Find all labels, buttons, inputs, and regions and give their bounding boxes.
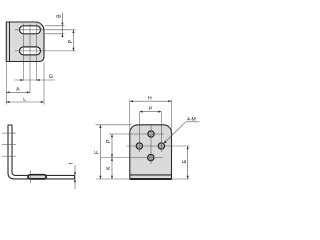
lower slot horizontal centerline [15,50,76,52]
dimension P top left arrow [139,111,142,113]
dimension L left arrow [6,101,9,103]
dimension F line [99,125,101,179]
side view tick hole row 3 [2,155,16,157]
dimension H right arrow [168,100,171,102]
dimension P right line [73,30,75,51]
dimension G left outside arrow [20,79,23,81]
H left extension [129,100,131,132]
svg-text:P: P [106,139,112,143]
slot center axis vertical (A extension) [29,24,31,93]
leader diagonal to right hole [164,122,186,143]
dimension P left line [111,134,113,158]
centerline vertical right hole / P ext [160,112,162,152]
extension line slot top for B [45,25,65,27]
hole bottom [148,155,154,161]
dimension P arrow up [72,30,74,33]
face view plate (top-left, slotted leg) [6,22,44,62]
hole right [158,143,164,149]
side view tick hole row 2 [2,144,16,146]
dimension K top arrow [111,158,113,161]
dimension t line [74,165,76,189]
svg-text:A: A [16,87,20,93]
dimension H left arrow [130,100,133,102]
dimension P left bottom arrow [111,154,113,157]
dimension L line [6,101,44,103]
svg-text:E: E [182,159,188,163]
dimension E bottom arrow [187,176,189,179]
dimension E line [187,146,189,179]
svg-text:P: P [68,39,74,43]
centerline bottom hole row horizontal [101,157,163,159]
dimension K bottom arrow [111,176,113,179]
thick bottom bend edge [130,178,172,180]
centerline top hole row horizontal [109,133,164,135]
hole-leg view plate (bottom-right) [130,125,172,179]
dimension K line [111,158,113,179]
dimension B arrow up [61,34,63,37]
lower slot [20,47,41,55]
dimension B line [61,13,63,38]
centerline vertical left hole / P ext [138,112,140,152]
svg-text:K: K [106,166,112,170]
leader shoulder under 4-M [186,121,200,123]
dimension F bottom arrow [99,176,101,179]
dimension G right outside arrow [37,79,40,81]
E bottom extension right [172,178,190,180]
dimension P top right arrow [158,111,161,113]
svg-text:L: L [23,97,26,103]
dimension t arrow down [74,172,76,175]
dimension G line [14,79,55,81]
dimension E top arrow [187,146,189,149]
bend strip line of hole-leg view [130,174,172,176]
slot hole centerline right vertical [36,24,38,81]
H right extension [171,100,173,132]
upper slot [20,26,41,34]
dimension P left top arrow [111,134,113,137]
leader arrowhead [164,140,167,143]
slot hole centerline left vertical [23,24,25,81]
bend strip line of face view [9,22,11,62]
extension line slot bottom for B [45,33,65,35]
centerline mid hole row horizontal [127,145,190,147]
svg-text:B: B [56,14,62,18]
dimension A line [6,91,30,93]
svg-text:P: P [149,106,153,112]
dimension A left arrow [6,91,9,93]
right extension line for L [43,63,45,105]
dimension L right arrow [41,101,44,103]
dimension H line [130,100,172,102]
dimension B arrow down [61,23,63,26]
left extension line for A and L [5,63,7,105]
dimension t arrow up [74,179,76,182]
svg-text:F: F [95,151,101,154]
upper slot horizontal centerline [15,29,76,31]
svg-text:H: H [148,96,152,102]
svg-text:G: G [49,74,53,80]
side view L-profile outline [8,125,75,179]
dimension F top arrow [99,125,101,128]
hole top [148,131,154,137]
dimension P arrow down [72,48,74,51]
F K bottom extension left [96,178,130,180]
centerline vertical mid [150,125,152,164]
hole left [136,143,142,149]
side view slot band (slot seen through) [28,175,46,179]
F top extension [96,124,132,126]
dimension A right arrow [27,91,30,93]
dimension P top line [139,111,161,113]
side view tick hole row 1 [2,132,16,134]
side view vertical tick on horizontal leg [29,171,31,184]
